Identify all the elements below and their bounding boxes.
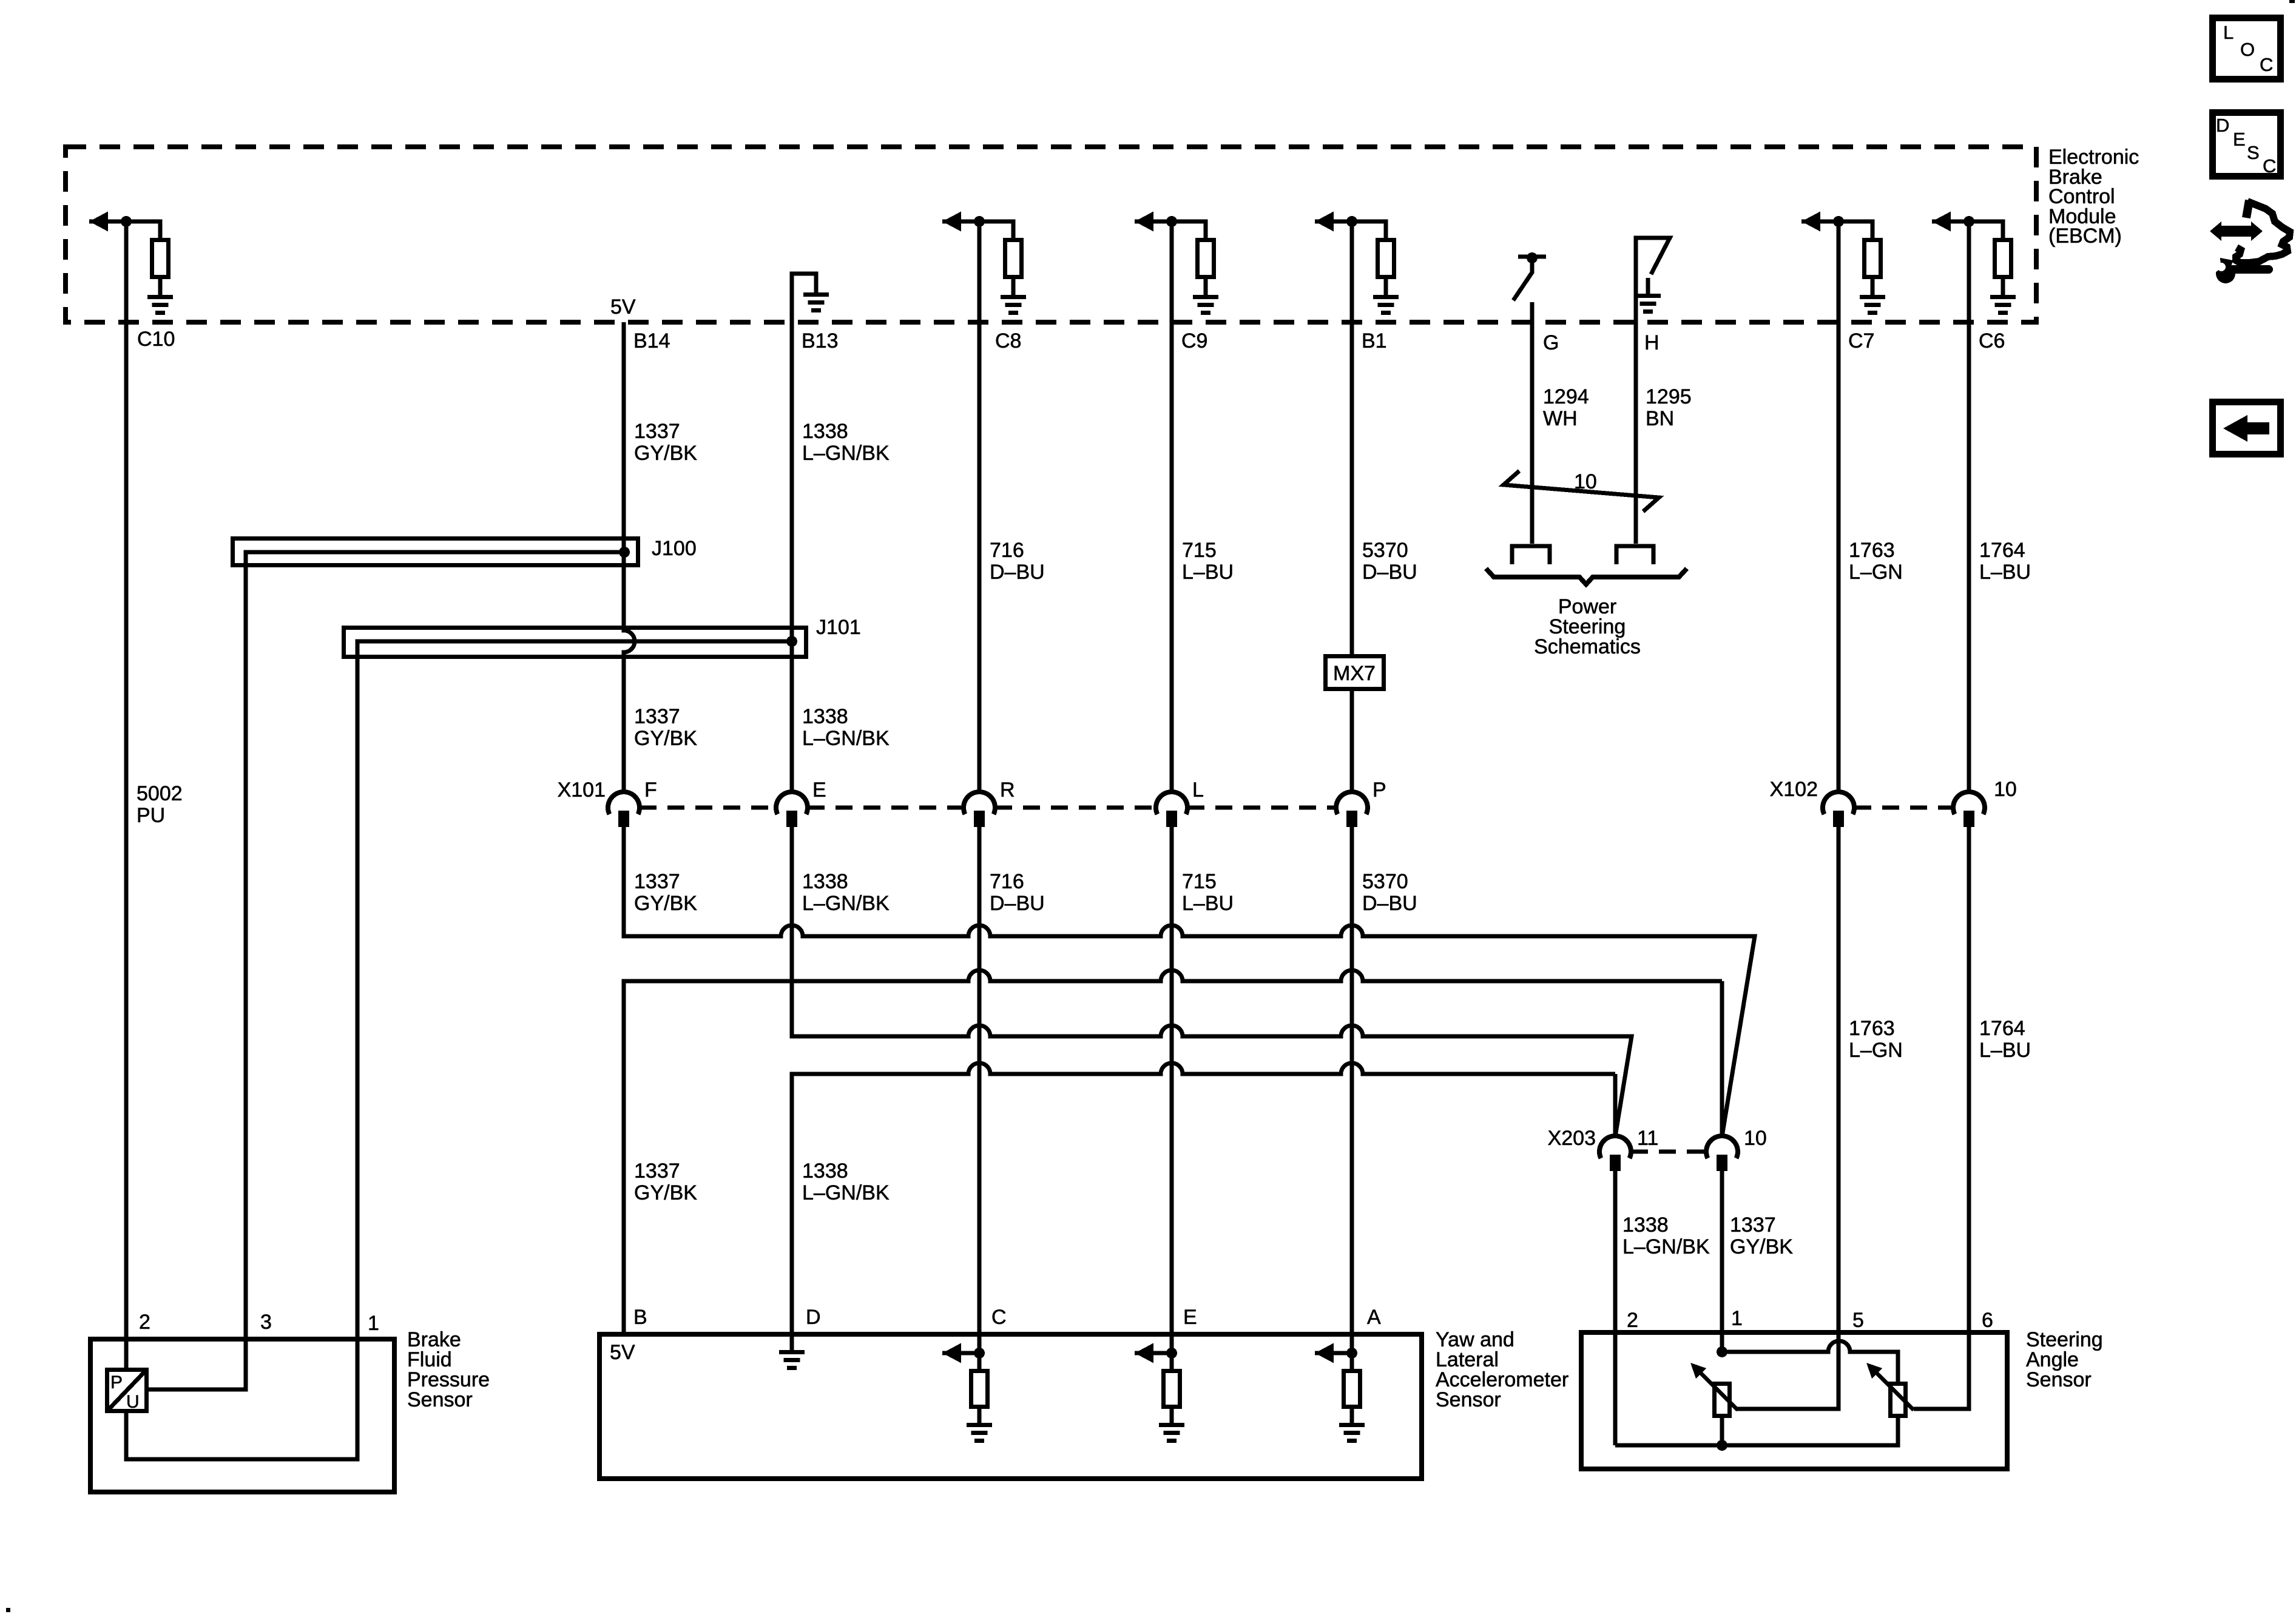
connector X101-P [1336, 792, 1368, 814]
svg-text:L–GN/BK: L–GN/BK [802, 892, 890, 915]
wire 1763 from X102 to steering pin 5 [1737, 827, 1838, 1409]
junction dot steering pin 1 top [1717, 1346, 1727, 1357]
svg-text:C9: C9 [1181, 329, 1207, 353]
svg-text:E: E [1183, 1306, 1197, 1329]
svg-text:5370: 5370 [1362, 539, 1408, 562]
svg-text:Sensor: Sensor [407, 1388, 473, 1411]
svg-text:L–GN/BK: L–GN/BK [802, 727, 890, 750]
svg-text:5V: 5V [610, 1341, 635, 1364]
wire 1294 WH from G to power steering [1530, 302, 1535, 544]
svg-text:E: E [2233, 129, 2246, 150]
EBCM internal unit on C9 [1135, 212, 1153, 232]
svg-text:P: P [110, 1372, 123, 1393]
svg-text:X102: X102 [1770, 778, 1818, 801]
svg-text:L–GN/BK: L–GN/BK [1622, 1235, 1710, 1258]
svg-text:Schematics: Schematics [1534, 635, 1641, 658]
svg-text:6: 6 [1982, 1309, 1993, 1332]
svg-text:1763: 1763 [1849, 539, 1895, 562]
EBCM internal unit on C8 [942, 212, 961, 232]
svg-text:D–BU: D–BU [990, 892, 1045, 915]
wire 5002 PU from C10 to pressure sensor pin 2 [124, 221, 129, 1368]
brake fluid pressure sensor box [90, 1339, 394, 1492]
svg-text:C6: C6 [1979, 329, 2005, 353]
svg-text:10: 10 [1744, 1127, 1767, 1150]
svg-text:D–BU: D–BU [990, 561, 1045, 584]
wire 5370 from X101-P to yaw sensor pin A [1350, 827, 1354, 1353]
wire 1338 L-GN/BK from B13 to X101-E [790, 322, 794, 792]
brace for power steering schematics [1486, 569, 1687, 584]
svg-text:B14: B14 [633, 329, 670, 353]
svg-text:715: 715 [1182, 539, 1217, 562]
page artifact dot top-right [2289, 0, 2295, 3]
svg-text:L–GN: L–GN [1849, 1039, 1903, 1062]
svg-text:1338: 1338 [802, 705, 848, 728]
svg-text:715: 715 [1182, 870, 1217, 893]
svg-text:C: C [2263, 155, 2276, 177]
svg-text:1: 1 [1731, 1307, 1743, 1330]
wire 1337 branch to yaw sensor pin B [624, 970, 1722, 1332]
icon box LOC [2213, 18, 2281, 79]
off-page pedestal under H wire [1616, 546, 1653, 564]
icon wrench [2233, 265, 2269, 274]
svg-text:1764: 1764 [1979, 1017, 2025, 1040]
wire 1337 GY/BK from X203-10 to steering pin 1 [1720, 1171, 1724, 1352]
svg-text:GY/BK: GY/BK [634, 727, 697, 750]
connector X102-C6 pin 10 [1953, 792, 1985, 814]
svg-text:L: L [1192, 778, 1204, 802]
wire from J100 to pressure sensor pin 3 [149, 552, 624, 1389]
svg-text:GY/BK: GY/BK [634, 1181, 697, 1204]
svg-text:3: 3 [260, 1311, 272, 1334]
harness crossing mark 10 [1504, 471, 1659, 511]
svg-text:F: F [644, 778, 657, 802]
svg-text:1337: 1337 [634, 705, 680, 728]
splice MX7 box [1326, 657, 1384, 689]
svg-text:L–GN/BK: L–GN/BK [802, 1181, 890, 1204]
connector X102-C7 [1823, 792, 1854, 814]
page artifact dot bottom-left [6, 1608, 10, 1612]
svg-text:C8: C8 [995, 329, 1021, 353]
svg-text:1294: 1294 [1543, 385, 1589, 408]
svg-text:C: C [991, 1306, 1007, 1329]
svg-text:A: A [1367, 1306, 1381, 1329]
svg-text:B13: B13 [802, 329, 839, 353]
connector X203-11 [1599, 1136, 1631, 1158]
svg-text:10: 10 [1994, 778, 2017, 801]
svg-text:C10: C10 [137, 328, 175, 351]
svg-text:1337: 1337 [634, 420, 680, 443]
svg-text:L–GN/BK: L–GN/BK [802, 442, 890, 465]
wire 715 L-BU from C9 to X101-L [1170, 221, 1174, 792]
svg-text:L–BU: L–BU [1979, 561, 2031, 584]
svg-text:5370: 5370 [1362, 870, 1408, 893]
wire 1338 from X101-E across to X203-11 [792, 827, 1632, 1136]
off-page pedestal under G wire [1512, 546, 1550, 564]
pressure transducer P/U box [107, 1370, 147, 1411]
svg-text:BN: BN [1646, 407, 1674, 430]
yaw internal unit on E [1166, 1348, 1177, 1359]
junction dot lower bus [1717, 1440, 1727, 1451]
svg-text:L–BU: L–BU [1182, 561, 1234, 584]
svg-text:D–BU: D–BU [1362, 892, 1417, 915]
svg-text:D: D [2216, 115, 2229, 136]
wire 716 D-BU from C8 to X101-R [977, 221, 982, 792]
EBCM internal pull-up on C10: arrow, junction, resistor, ground [89, 212, 108, 232]
X102 dashed connector line [1854, 806, 1953, 810]
svg-text:5002: 5002 [137, 782, 183, 805]
connector X101-L [1156, 792, 1187, 814]
svg-text:E: E [812, 778, 826, 802]
svg-text:10: 10 [1574, 470, 1597, 493]
wire 1338 L-GN/BK from X203-11 to steering pin 2 [1613, 1171, 1618, 1445]
svg-text:1337: 1337 [634, 870, 680, 893]
svg-text:1338: 1338 [1622, 1214, 1669, 1237]
yaw internal unit on C [974, 1348, 985, 1359]
connector X101-E [776, 792, 808, 814]
svg-text:J100: J100 [652, 537, 697, 560]
EBCM internal switch to ground on H pin [1636, 238, 1670, 322]
svg-text:O: O [2240, 39, 2255, 60]
svg-text:2: 2 [139, 1311, 150, 1334]
svg-text:11: 11 [1637, 1127, 1658, 1150]
svg-text:U: U [126, 1392, 140, 1412]
wire 1295 BN from H to power steering [1634, 322, 1638, 544]
EBCM internal switch on G pin [1518, 255, 1546, 259]
wire 5370 D-BU from B1 to MX7 [1350, 221, 1354, 654]
potentiometer 2 (steering) [1891, 1384, 1906, 1416]
svg-text:GY/BK: GY/BK [634, 892, 697, 915]
svg-text:2: 2 [1627, 1309, 1638, 1332]
svg-text:(EBCM): (EBCM) [2048, 224, 2122, 248]
yaw internal ground on D [790, 1332, 794, 1350]
wire 1763 L-GN from C7 to X102 [1837, 221, 1841, 792]
svg-text:1763: 1763 [1849, 1017, 1895, 1040]
junction dot J101 [786, 636, 797, 647]
svg-text:GY/BK: GY/BK [1730, 1235, 1793, 1258]
svg-text:G: G [1543, 331, 1559, 354]
icon box DESC [2213, 113, 2281, 177]
yaw and lateral accelerometer sensor box [599, 1334, 1422, 1479]
svg-text:MX7: MX7 [1333, 662, 1376, 685]
svg-text:B1: B1 [1362, 329, 1387, 353]
wire pin1 to pot2 (hop over pin5 wire) [1722, 1341, 1898, 1382]
svg-text:1764: 1764 [1979, 539, 2025, 562]
steering lower bus from pin 2 to pot2 bottom [1615, 1418, 1898, 1445]
wire 5370 D-BU from MX7 to X101-P [1350, 691, 1354, 792]
svg-text:1338: 1338 [802, 870, 848, 893]
svg-text:5: 5 [1852, 1309, 1864, 1332]
svg-text:PU: PU [137, 804, 165, 827]
svg-text:D: D [806, 1306, 821, 1329]
svg-text:L–GN: L–GN [1849, 561, 1903, 584]
svg-text:5V: 5V [610, 295, 636, 319]
svg-text:1338: 1338 [802, 420, 848, 443]
wire 1764 L-BU from C6 to X102 [1967, 221, 1971, 792]
svg-text:X203: X203 [1548, 1127, 1596, 1150]
wire 1338 vertical into X203-11 [1613, 1074, 1618, 1136]
svg-text:WH: WH [1543, 407, 1578, 430]
connector X101-F [608, 792, 640, 814]
svg-text:1338: 1338 [802, 1160, 848, 1183]
wire 1338 branch to yaw sensor pin D [792, 1063, 1615, 1332]
svg-text:H: H [1644, 331, 1660, 354]
wire 716 from X101-R to yaw sensor pin C [977, 827, 982, 1353]
svg-text:1: 1 [368, 1312, 379, 1335]
wire pot1 bottom to lower bus [1720, 1418, 1724, 1445]
steering angle sensor box [1581, 1332, 2007, 1469]
svg-text:Sensor: Sensor [1436, 1388, 1501, 1411]
svg-text:716: 716 [990, 870, 1024, 893]
wire 1764 from X102 to steering pin 6 [1914, 827, 1969, 1409]
svg-text:Sensor: Sensor [2026, 1368, 2092, 1391]
EBCM internal unit on C6 [1932, 212, 1951, 232]
wire from J101 to pressure sensor pin 1 [126, 641, 792, 1459]
svg-text:1337: 1337 [1730, 1214, 1776, 1237]
svg-text:P: P [1373, 778, 1386, 802]
wire 715 from X101-L to yaw sensor pin E [1170, 827, 1174, 1353]
icon hand with double arrow [2210, 221, 2221, 241]
svg-text:D–BU: D–BU [1362, 561, 1417, 584]
splice tube J100 [233, 539, 638, 565]
yaw internal unit on A [1346, 1348, 1357, 1359]
connector X203-10 [1706, 1136, 1738, 1158]
EBCM dashed module box [66, 147, 2036, 322]
connector X101-R [964, 792, 995, 814]
svg-text:GY/BK: GY/BK [634, 442, 697, 465]
EBCM internal unit on C7 [1801, 212, 1820, 232]
EBCM internal unit on B1 [1315, 212, 1334, 232]
svg-text:R: R [1000, 778, 1015, 802]
potentiometer 1 (steering) [1715, 1384, 1730, 1416]
svg-text:1295: 1295 [1646, 385, 1692, 408]
wire 1337 from X101-F across to X203-10 (hops over other columns) [624, 827, 1755, 1136]
svg-text:S: S [2247, 142, 2260, 163]
svg-text:B: B [633, 1306, 647, 1329]
X203 dashed connector line [1631, 1150, 1706, 1154]
wire 1337 vertical into X203-10 [1720, 981, 1724, 1136]
wire 1337 GY/BK from B14 through J100 to X101-F (hop over J101 lead) [624, 322, 635, 792]
svg-text:C: C [2260, 54, 2273, 75]
svg-text:1337: 1337 [634, 1160, 680, 1183]
svg-text:L–BU: L–BU [1979, 1039, 2031, 1062]
icon box back-arrow [2213, 402, 2281, 454]
svg-text:716: 716 [990, 539, 1024, 562]
svg-text:L–BU: L–BU [1182, 892, 1234, 915]
X101 dashed connector line [640, 806, 776, 810]
junction dot J100 [619, 547, 630, 558]
svg-text:X101: X101 [558, 778, 606, 802]
svg-text:L: L [2223, 22, 2234, 43]
svg-text:J101: J101 [816, 616, 861, 639]
EBCM internal ground on B13 [792, 274, 816, 322]
svg-text:C7: C7 [1848, 329, 1874, 353]
splice tube J101 [344, 628, 806, 657]
